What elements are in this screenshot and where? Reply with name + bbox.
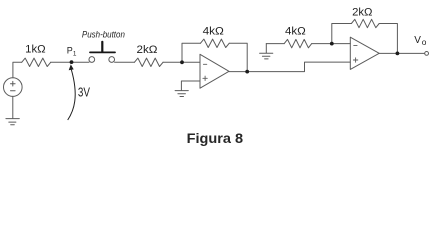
node junction: [330, 42, 334, 46]
svg-text:2kΩ: 2kΩ: [352, 6, 372, 18]
svg-text:4kΩ: 4kΩ: [285, 25, 306, 37]
resistor R5 2k: [351, 19, 379, 27]
wire: [12, 96, 14, 118]
terminal Vo: [425, 52, 429, 56]
resistor R2 2k: [134, 58, 163, 66]
wire: [181, 81, 200, 90]
voltage source V1: [4, 78, 23, 97]
wire: [379, 24, 397, 54]
svg-text:V: V: [414, 35, 421, 46]
wire: [266, 43, 284, 45]
op-amp U1: [200, 54, 229, 88]
svg-text:Figura 8: Figura 8: [187, 130, 244, 146]
svg-text:3V: 3V: [78, 84, 90, 99]
resistor R1 1k: [22, 58, 51, 66]
wire: [229, 62, 350, 72]
svg-text:4kΩ: 4kΩ: [203, 26, 224, 38]
node junction: [245, 70, 249, 74]
wire: [312, 43, 351, 45]
wire: [13, 62, 22, 78]
svg-text:Push-button: Push-button: [82, 29, 125, 40]
wire: [115, 61, 135, 63]
svg-text:o: o: [422, 37, 427, 47]
node P1 junction: [70, 60, 74, 64]
wire: [379, 52, 425, 54]
ground: [175, 91, 188, 97]
push-button S1: [89, 42, 115, 63]
wire: [332, 24, 352, 44]
ground: [6, 119, 19, 125]
annotation arrow 3V: [68, 64, 76, 120]
svg-text:2kΩ: 2kΩ: [137, 44, 158, 56]
ground: [260, 44, 273, 59]
resistor R3 4k: [200, 39, 229, 47]
wire: [163, 61, 200, 63]
wire: [182, 43, 200, 62]
svg-text:1kΩ: 1kΩ: [25, 44, 46, 56]
resistor R4 4k: [284, 39, 312, 47]
wire: [51, 61, 89, 63]
op-amp U2: [350, 37, 379, 69]
wire: [229, 43, 247, 71]
node junction: [180, 60, 184, 64]
node junction: [396, 52, 400, 56]
svg-text:1: 1: [73, 51, 77, 58]
